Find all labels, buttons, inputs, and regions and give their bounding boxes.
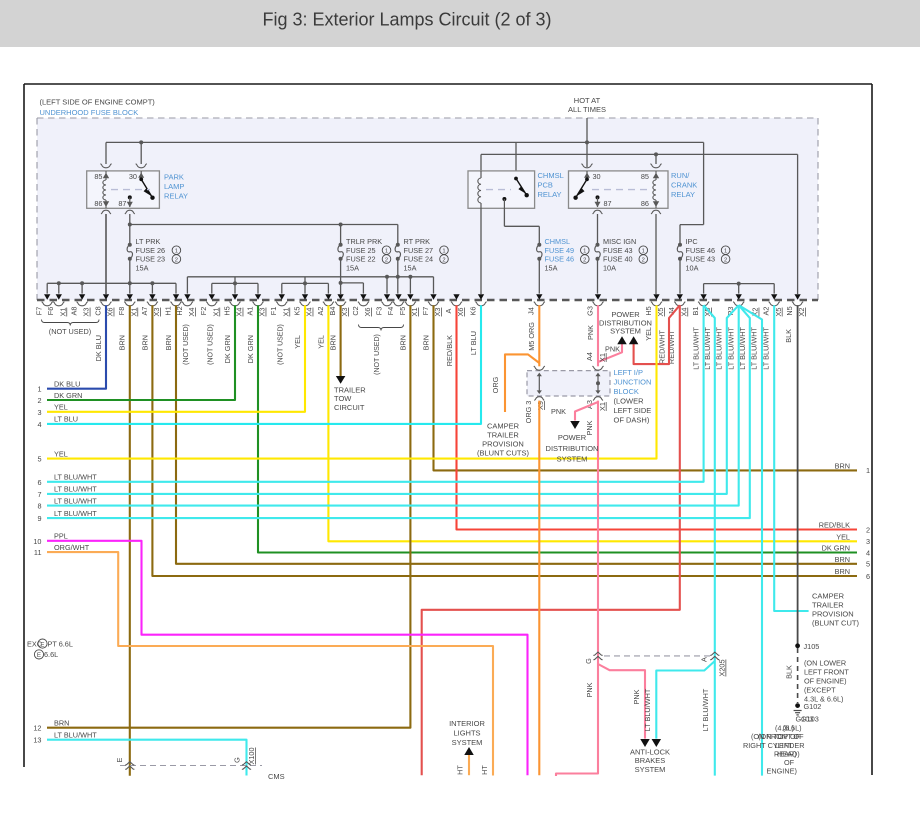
- svg-text:LT BLU: LT BLU: [469, 331, 478, 355]
- wire ORG camper trailer branch: [505, 354, 539, 412]
- wire relay87 to LT PRK fuse: [129, 214, 131, 245]
- wire RED/WHT J4 long down: [422, 305, 680, 775]
- svg-text:RED/BLK: RED/BLK: [819, 521, 850, 530]
- svg-text:LEFT SIDE: LEFT SIDE: [614, 406, 652, 415]
- svg-text:6: 6: [37, 478, 41, 487]
- svg-text:BRN: BRN: [835, 555, 850, 564]
- svg-text:YEL: YEL: [293, 335, 302, 349]
- svg-text:LIGHTS: LIGHTS: [453, 729, 480, 738]
- svg-text:BRN: BRN: [118, 335, 127, 350]
- svg-text:YEL: YEL: [836, 533, 850, 542]
- svg-text:85: 85: [641, 172, 649, 181]
- svg-text:85: 85: [94, 172, 102, 181]
- orange ORG/WHT wire: [47, 552, 493, 775]
- svg-text:G: G: [232, 757, 241, 763]
- svg-text:N5: N5: [785, 306, 794, 315]
- svg-text:C8: C8: [93, 306, 102, 315]
- svg-text:LT BLU/WHT: LT BLU/WHT: [691, 326, 700, 369]
- svg-text:PPL: PPL: [54, 532, 68, 541]
- svg-text:PNK: PNK: [605, 345, 620, 354]
- wire PNK G3 to junction block A4: [597, 305, 599, 366]
- svg-text:6.6L: 6.6L: [44, 650, 58, 659]
- svg-text:YEL: YEL: [644, 327, 653, 341]
- svg-text:LT BLU/WHT: LT BLU/WHT: [54, 485, 97, 494]
- svg-text:B1: B1: [691, 307, 700, 316]
- svg-text:X4: X4: [187, 308, 196, 317]
- svg-text:FUSE 43: FUSE 43: [686, 255, 716, 264]
- svg-text:15A: 15A: [404, 263, 417, 272]
- svg-text:87: 87: [118, 199, 126, 208]
- pin K5 connector X4: [302, 294, 308, 299]
- svg-text:DK BLU: DK BLU: [54, 380, 80, 389]
- pin A8 connector X3: [79, 294, 85, 299]
- wire RED/BLK A row2 right: [457, 305, 858, 529]
- wire ORG J4 to junction block M5: [538, 305, 540, 366]
- svg-text:(NOT USED): (NOT USED): [277, 324, 284, 365]
- svg-text:X3: X3: [82, 308, 91, 317]
- svg-text:LT BLU/WHT: LT BLU/WHT: [701, 688, 710, 731]
- outer frame: [24, 83, 872, 85]
- relay PARK LAMP - connector cups: [101, 164, 112, 168]
- svg-text:ANTI-LOCK: ANTI-LOCK: [630, 748, 670, 757]
- svg-text:86: 86: [94, 199, 102, 208]
- svg-text:K6: K6: [468, 307, 477, 316]
- wire LT BLU/WHT P3 row8: [47, 305, 739, 505]
- svg-text:FUSE 46: FUSE 46: [686, 246, 716, 255]
- fuse LT PRK FUSE 26/23 15A: [128, 243, 132, 247]
- svg-text:LEFT I/P: LEFT I/P: [614, 368, 643, 377]
- wire LT BLU/WHT P3 blunt end: [739, 305, 762, 775]
- pin B4 connector X3: [337, 294, 343, 299]
- RT PRK long bus y=276.8: [187, 276, 433, 278]
- svg-text:DK GRN: DK GRN: [54, 391, 82, 400]
- svg-text:(NOT USED): (NOT USED): [374, 334, 381, 375]
- svg-text:E: E: [115, 757, 124, 762]
- fuse MISC IGN FUSE 43/40 10A: [597, 214, 599, 245]
- svg-text:MISC IGN: MISC IGN: [603, 237, 636, 246]
- wire BRN F7 row1 right: [434, 305, 858, 470]
- svg-text:BRN: BRN: [140, 335, 149, 350]
- svg-text:BRN: BRN: [164, 335, 173, 350]
- svg-text:RIGHT CYLINDER: RIGHT CYLINDER: [743, 741, 805, 750]
- wire DK BLU C8 row1: [47, 305, 106, 389]
- svg-text:RELAY: RELAY: [538, 190, 562, 199]
- svg-text:F2: F2: [199, 307, 208, 316]
- svg-text:CIRCUIT: CIRCUIT: [334, 403, 365, 412]
- svg-text:K5: K5: [292, 307, 301, 316]
- svg-text:BLOCK: BLOCK: [614, 387, 639, 396]
- svg-text:J105: J105: [804, 642, 820, 651]
- svg-text:9: 9: [37, 514, 41, 523]
- svg-text:X205: X205: [718, 659, 727, 676]
- svg-text:LAMP: LAMP: [164, 182, 184, 191]
- svg-text:30: 30: [129, 172, 137, 181]
- underhood fuse block: [37, 118, 818, 300]
- svg-text:PNK: PNK: [585, 420, 594, 435]
- svg-text:5: 5: [866, 560, 870, 569]
- svg-text:ORG 3: ORG 3: [524, 401, 533, 424]
- wire LT BLU/WHT P3 row7: [47, 305, 739, 494]
- svg-text:Fig 3: Exterior Lamps Circuit: Fig 3: Exterior Lamps Circuit (2 of 3): [262, 10, 551, 30]
- svg-text:PNK: PNK: [585, 682, 594, 697]
- LT PRK distribution bus: [47, 282, 176, 284]
- svg-text:A1: A1: [245, 307, 254, 316]
- svg-text:M5 ORG: M5 ORG: [527, 322, 536, 351]
- svg-text:SYSTEM: SYSTEM: [610, 327, 641, 336]
- fuse IPC FUSE 46/43 10A: [678, 243, 682, 247]
- svg-text:F4: F4: [386, 307, 395, 316]
- pin F3: [384, 294, 390, 299]
- svg-text:F3: F3: [374, 307, 383, 316]
- pin P3: [736, 294, 742, 299]
- pin B1 connector X5: [700, 294, 706, 299]
- svg-text:TRLR PRK: TRLR PRK: [346, 237, 382, 246]
- svg-text:PT 6.6L: PT 6.6L: [48, 639, 73, 648]
- svg-text:2: 2: [583, 257, 586, 263]
- svg-text:H5: H5: [222, 306, 231, 315]
- svg-text:DK GRN: DK GRN: [246, 335, 255, 363]
- pin K6: [478, 294, 484, 299]
- svg-text:YEL: YEL: [54, 449, 68, 458]
- svg-text:A2: A2: [316, 307, 325, 316]
- bus 2 y=154.4: [481, 153, 798, 155]
- svg-text:DISTRIBUTION: DISTRIBUTION: [546, 444, 599, 453]
- svg-text:13: 13: [33, 736, 41, 745]
- ground G102: [795, 703, 800, 708]
- svg-text:PCB: PCB: [538, 181, 553, 190]
- pin A2: [325, 294, 331, 299]
- svg-text:10A: 10A: [686, 263, 699, 272]
- wire LT BLU/WHT B1 row6: [47, 305, 704, 482]
- PNK to anti-lock brakes: [598, 664, 645, 739]
- IPC feed wire: [703, 142, 705, 224]
- svg-text:4: 4: [37, 420, 41, 429]
- svg-text:A4: A4: [585, 352, 594, 361]
- svg-text:(ON TOP OF: (ON TOP OF: [758, 732, 801, 741]
- wire LT BLU/WHT A2 to camper trailer (blunt cut): [774, 305, 808, 611]
- svg-text:F5: F5: [398, 307, 407, 316]
- svg-text:LT BLU/WHT: LT BLU/WHT: [750, 326, 759, 369]
- svg-text:3: 3: [37, 408, 41, 417]
- RUN86 wire to H5: [655, 214, 657, 294]
- svg-text:1: 1: [37, 385, 41, 394]
- svg-text:4.3L & 6.6L): 4.3L & 6.6L): [804, 695, 843, 704]
- svg-text:11: 11: [34, 548, 42, 557]
- fuse CHMSL FUSE 49/46 15A: [537, 243, 541, 247]
- svg-text:F7: F7: [421, 307, 430, 316]
- svg-text:1: 1: [724, 249, 727, 255]
- wire DK GRN A1 row4 right: [258, 305, 857, 552]
- svg-text:FUSE 24: FUSE 24: [404, 255, 434, 264]
- PNK branch to power distribution system (up): [598, 344, 622, 362]
- svg-text:8: 8: [37, 502, 41, 511]
- svg-text:X9: X9: [536, 401, 545, 410]
- svg-text:G3: G3: [585, 306, 594, 316]
- svg-text:F8: F8: [117, 307, 126, 316]
- cyan pins bus: [704, 283, 775, 285]
- pin F5 connector X1: [407, 294, 413, 299]
- svg-text:POWER: POWER: [558, 433, 587, 442]
- svg-text:SYSTEM: SYSTEM: [452, 738, 483, 747]
- svg-text:BRN: BRN: [835, 462, 850, 471]
- svg-text:OF DASH): OF DASH): [614, 416, 650, 425]
- svg-text:A2: A2: [762, 307, 771, 316]
- svg-text:X6: X6: [363, 308, 372, 317]
- park lamp relay box: [87, 171, 160, 208]
- svg-text:15A: 15A: [545, 263, 558, 272]
- svg-text:JUNCTION: JUNCTION: [614, 378, 652, 387]
- svg-text:LT BLU/WHT: LT BLU/WHT: [54, 473, 97, 482]
- svg-text:LT BLU/WHT: LT BLU/WHT: [54, 509, 97, 518]
- svg-text:1: 1: [642, 249, 645, 255]
- pin H2 connector X4: [184, 294, 190, 299]
- svg-text:1: 1: [442, 249, 445, 255]
- magenta PPL wire: [47, 541, 528, 775]
- svg-text:1: 1: [175, 249, 178, 255]
- svg-text:TRAILER: TRAILER: [812, 601, 844, 610]
- svg-text:RED/BLK: RED/BLK: [445, 335, 454, 366]
- svg-text:PNK: PNK: [586, 325, 595, 340]
- svg-text:LEFT FRONT: LEFT FRONT: [804, 668, 849, 677]
- short bus to C2: [341, 282, 364, 284]
- svg-text:ORG: ORG: [491, 376, 500, 393]
- svg-text:LT BLU: LT BLU: [54, 415, 78, 424]
- wire YEL K5 row3 left: [47, 305, 305, 412]
- svg-text:(NOT USED): (NOT USED): [49, 327, 91, 336]
- svg-text:CAMPER: CAMPER: [487, 422, 520, 431]
- LT BLU/WHT to anti-lock brakes: [656, 661, 715, 739]
- svg-text:HT: HT: [480, 765, 489, 775]
- wire BRN F8 to X100-E: [129, 305, 131, 776]
- pin F8 connector X1: [127, 294, 133, 299]
- svg-text:SYSTEM: SYSTEM: [557, 455, 588, 464]
- svg-text:10: 10: [33, 537, 41, 546]
- svg-text:H5: H5: [644, 306, 653, 315]
- pin C8 connector X6: [103, 294, 109, 299]
- svg-text:X1: X1: [598, 353, 607, 362]
- svg-text:BRAKES: BRAKES: [635, 756, 665, 765]
- pin F7 connector X3: [430, 294, 436, 299]
- not used braces and labels: [42, 320, 100, 326]
- wire BRN H1 row5 right: [176, 305, 857, 564]
- svg-text:1: 1: [583, 249, 586, 255]
- wire YEL H5 row5 left: [47, 305, 657, 458]
- svg-text:87: 87: [604, 199, 612, 208]
- svg-text:A8: A8: [70, 307, 79, 316]
- svg-text:LT BLU/WHT: LT BLU/WHT: [54, 731, 97, 740]
- svg-text:(ON LOWER: (ON LOWER: [804, 659, 846, 668]
- svg-text:15A: 15A: [346, 263, 359, 272]
- svg-text:F1: F1: [269, 307, 278, 316]
- svg-text:YEL: YEL: [54, 403, 68, 412]
- svg-text:ALL TIMES: ALL TIMES: [568, 105, 606, 114]
- svg-text:A: A: [444, 308, 453, 313]
- splice J105: [795, 643, 800, 648]
- wire YEL A2 row3 right: [328, 305, 857, 541]
- svg-text:UNDERHOOD FUSE BLOCK: UNDERHOOD FUSE BLOCK: [40, 108, 139, 117]
- svg-text:1: 1: [385, 249, 388, 255]
- svg-text:PNK: PNK: [551, 407, 566, 416]
- svg-text:X1: X1: [211, 308, 220, 317]
- CHMSL switch wire to fuse: [503, 208, 505, 226]
- wire ORG X9 down to bottom: [538, 401, 540, 776]
- svg-text:86: 86: [641, 199, 649, 208]
- wire LT BLU/WHT row13 to X100-G: [47, 740, 247, 776]
- svg-text:FUSE 49: FUSE 49: [545, 246, 575, 255]
- svg-text:(LEFT SIDE OF ENGINE COMPT): (LEFT SIDE OF ENGINE COMPT): [40, 98, 156, 107]
- wire relay86 to C8: [105, 214, 107, 294]
- PNK branch to power distribution (down): [575, 402, 598, 421]
- pin A2 connector X5: [771, 294, 777, 299]
- svg-text:ORG/WHT: ORG/WHT: [54, 543, 90, 552]
- title bar: [0, 0, 920, 47]
- wire DK GRN H5 row2 left: [47, 305, 235, 400]
- pin F7: [44, 294, 50, 299]
- svg-text:BRN: BRN: [54, 719, 69, 728]
- svg-text:2: 2: [642, 257, 645, 263]
- svg-text:X1: X1: [598, 402, 607, 411]
- fuse RT PRK FUSE 27/24 15A: [396, 243, 400, 247]
- svg-text:7: 7: [37, 490, 41, 499]
- sub-bus B: [304, 277, 306, 284]
- svg-text:X2: X2: [797, 308, 806, 317]
- svg-text:A: A: [700, 657, 709, 662]
- pin F4: [395, 294, 401, 299]
- svg-text:PNK: PNK: [632, 689, 641, 704]
- svg-text:PROVISION: PROVISION: [812, 610, 854, 619]
- pin F1 connector X1: [279, 294, 285, 299]
- svg-text:CHMSL: CHMSL: [545, 237, 571, 246]
- X100 connector: [120, 765, 262, 767]
- svg-text:RED/WHT: RED/WHT: [657, 329, 666, 364]
- pin G3: [595, 294, 601, 299]
- svg-text:ENGINE): ENGINE): [767, 767, 797, 776]
- svg-text:LEFT: LEFT: [775, 741, 793, 750]
- svg-text:LT PRK: LT PRK: [136, 237, 161, 246]
- pin H5 connector X4: [232, 294, 238, 299]
- svg-text:C2: C2: [351, 306, 360, 315]
- svg-text:E: E: [37, 652, 41, 659]
- svg-text:1: 1: [866, 466, 870, 475]
- svg-text:FUSE 26: FUSE 26: [136, 246, 166, 255]
- pin A1 connector X3: [255, 294, 261, 299]
- svg-text:F6: F6: [46, 307, 55, 316]
- svg-text:BLK: BLK: [784, 329, 793, 343]
- svg-text:LT BLU/WHT: LT BLU/WHT: [643, 688, 652, 731]
- svg-text:A7: A7: [140, 307, 149, 316]
- wire BLK N5 to grounds: [797, 305, 799, 646]
- svg-text:FUSE 23: FUSE 23: [136, 255, 166, 264]
- svg-text:BRN: BRN: [398, 335, 407, 350]
- svg-text:PROVISION: PROVISION: [482, 440, 524, 449]
- svg-text:BRN: BRN: [835, 567, 850, 576]
- fuse TRLR PRK FUSE 25/22 15A: [339, 243, 343, 247]
- wire BRN B4 trailer tow: [340, 305, 342, 377]
- svg-text:12: 12: [33, 724, 41, 733]
- svg-text:INTERIOR: INTERIOR: [449, 719, 485, 728]
- wire LT BLU K6 row4 left: [47, 305, 481, 424]
- svg-text:FUSE 27: FUSE 27: [404, 246, 434, 255]
- svg-text:CRANK: CRANK: [671, 181, 697, 190]
- svg-text:TRAILER: TRAILER: [487, 431, 519, 440]
- svg-text:PARK: PARK: [164, 173, 184, 182]
- svg-text:(NOT USED): (NOT USED): [207, 324, 214, 365]
- svg-text:CAMPER: CAMPER: [812, 592, 845, 601]
- wire LT BLU/WHT P3 row9: [47, 305, 750, 518]
- wire RED/WHT X5 to power distribution: [634, 305, 680, 364]
- svg-text:RELAY: RELAY: [164, 192, 188, 201]
- svg-text:HT: HT: [456, 765, 465, 775]
- svg-text:G103: G103: [801, 715, 819, 724]
- pin H1: [173, 294, 179, 299]
- pin F6 connector X1: [56, 294, 62, 299]
- svg-text:IPC: IPC: [686, 237, 698, 246]
- svg-text:X100: X100: [247, 747, 256, 764]
- svg-text:(BLUNT CUT): (BLUNT CUT): [812, 619, 859, 628]
- svg-text:(NOT USED): (NOT USED): [183, 324, 190, 365]
- relay CHMSL PCB: [468, 171, 535, 208]
- pin J4 connector X4: [677, 294, 683, 299]
- wire BRN A7 row6 right: [152, 305, 857, 576]
- svg-text:F7: F7: [35, 307, 44, 316]
- svg-text:RELAY: RELAY: [671, 190, 695, 199]
- svg-text:DK GRN: DK GRN: [822, 544, 850, 553]
- svg-text:2: 2: [866, 525, 870, 534]
- svg-text:X1: X1: [58, 308, 67, 317]
- pin A connector X6: [453, 294, 459, 299]
- pin N5 connector X2: [794, 294, 800, 299]
- wire BRN F5 row12: [47, 305, 410, 728]
- svg-text:BLK: BLK: [784, 665, 793, 679]
- svg-text:J4: J4: [527, 307, 536, 315]
- svg-text:E: E: [40, 641, 44, 648]
- svg-text:LT BLU/WHT: LT BLU/WHT: [715, 326, 724, 369]
- pin C2 connector X6: [360, 294, 366, 299]
- svg-text:CMS: CMS: [268, 772, 285, 781]
- svg-text:X1: X1: [281, 308, 290, 317]
- svg-text:TRAILER: TRAILER: [334, 386, 366, 395]
- pin A7 connector X3: [149, 294, 155, 299]
- CHMSL coil wire to K6: [480, 208, 482, 294]
- svg-text:FUSE 40: FUSE 40: [603, 255, 633, 264]
- svg-text:FUSE 43: FUSE 43: [603, 246, 633, 255]
- svg-text:10A: 10A: [603, 263, 616, 272]
- svg-text:30: 30: [593, 172, 601, 181]
- svg-text:2: 2: [175, 257, 178, 263]
- svg-text:OF ENGINE): OF ENGINE): [804, 677, 847, 686]
- svg-text:6: 6: [866, 572, 870, 581]
- connector row dashed line: [37, 299, 818, 301]
- svg-text:2: 2: [724, 257, 727, 263]
- svg-text:5: 5: [37, 455, 41, 464]
- svg-text:H1: H1: [163, 306, 172, 315]
- svg-text:2: 2: [385, 257, 388, 263]
- pin J4: [536, 294, 542, 299]
- svg-text:LT BLU/WHT: LT BLU/WHT: [54, 496, 97, 505]
- svg-text:FUSE 46: FUSE 46: [545, 255, 575, 264]
- svg-text:RT PRK: RT PRK: [404, 237, 431, 246]
- sub-bus A: [234, 277, 236, 284]
- svg-text:TOW: TOW: [334, 394, 352, 403]
- wire LT BLU/WHT B1 to X205-A: [704, 305, 715, 775]
- svg-text:FUSE 22: FUSE 22: [346, 255, 376, 264]
- wire PNK A3 down: [556, 401, 598, 776]
- bus 1 y=142.4: [106, 141, 704, 143]
- svg-text:FUSE 25: FUSE 25: [346, 246, 376, 255]
- svg-text:2: 2: [442, 257, 445, 263]
- svg-text:RUN/: RUN/: [671, 171, 690, 180]
- svg-text:SYSTEM: SYSTEM: [635, 765, 666, 774]
